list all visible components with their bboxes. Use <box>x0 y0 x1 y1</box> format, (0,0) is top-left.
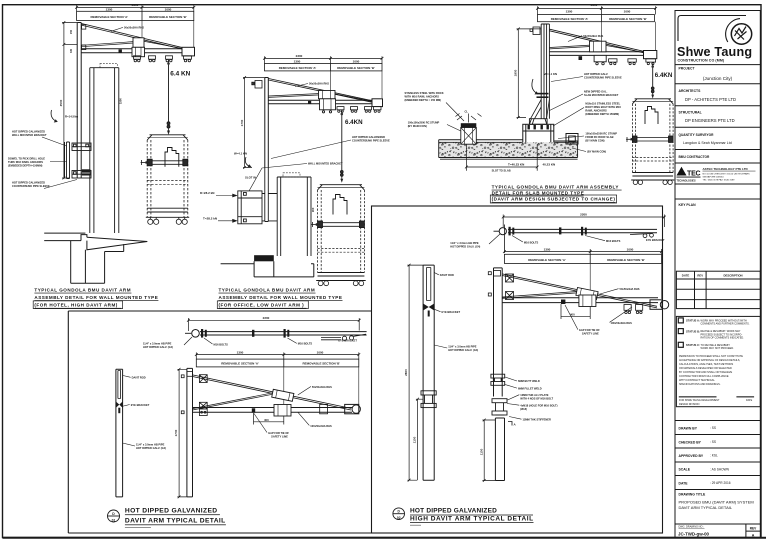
svg-text:11/4" x 3.0mm HB PIPE: 11/4" x 3.0mm HB PIPE <box>143 342 172 346</box>
svg-text:(Ø18): (Ø18) <box>520 407 527 411</box>
dim 400 <box>254 413 284 425</box>
post top bracket <box>530 27 540 35</box>
svg-text:TEL: 6546 3178 FAX: 6546 318: TEL: 6546 3178 FAX: 6546 3189 <box>703 178 736 181</box>
svg-text:HOT DIPPED GALVANIZED: HOT DIPPED GALVANIZED <box>125 508 218 515</box>
disclaimer paragraph <box>679 355 743 386</box>
svg-text:1000: 1000 <box>627 247 634 251</box>
right rc stump on slab <box>566 134 578 145</box>
trolley 1 <box>134 56 141 62</box>
title block row dividers <box>675 65 760 199</box>
left dim line 1800 <box>517 28 542 119</box>
post top bracket <box>82 25 86 30</box>
pipe centre mark <box>252 330 254 337</box>
svg-text:4xM18 (HOLE FOR M16 BOLT): 4xM18 (HOLE FOR M16 BOLT) <box>520 404 557 408</box>
svg-text:M16 BOLTS: M16 BOLTS <box>298 342 313 346</box>
svg-text:REV: REV <box>750 526 757 530</box>
svg-text:GAP FOR TIE OF: GAP FOR TIE OF <box>268 431 289 435</box>
svg-text:REMOVABLE SECTION 'A': REMOVABLE SECTION 'A' <box>279 66 317 70</box>
extension verticals <box>331 71 383 98</box>
davit rod inside <box>118 371 121 399</box>
svg-text:6MM FILLET WELD: 6MM FILLET WELD <box>518 386 542 390</box>
davit rod inside <box>427 268 431 301</box>
bottom frame <box>631 173 674 181</box>
mid hoist trolley under beam <box>594 55 606 61</box>
svg-text:RAWL ANCHORS: RAWL ANCHORS <box>585 109 607 113</box>
suspension pipe <box>200 332 367 335</box>
arm post <box>187 368 193 497</box>
swing arc arrow <box>51 110 56 122</box>
eye bracket bowtie on rod <box>116 402 123 408</box>
logo decorative frame <box>678 16 746 42</box>
arm post brackets <box>488 271 513 300</box>
removable section box <box>504 254 661 263</box>
svg-text:DP - ACHITECTS PTE LTD: DP - ACHITECTS PTE LTD <box>685 97 736 102</box>
wheels <box>318 281 363 286</box>
drawing 3 title <box>492 185 619 202</box>
svg-text:50x50x3HA RHS: 50x50x3HA RHS <box>620 287 640 291</box>
svg-text:ACCEPTANCE OR APPROVAL OF DESI: ACCEPTANCE OR APPROVAL OF DESIGN DETAILS… <box>679 359 740 362</box>
top chord <box>269 79 380 104</box>
svg-text:REMOVABLE SECTION 'A': REMOVABLE SECTION 'A' <box>528 258 566 262</box>
svg-text:HOT DIPPED GALV.: HOT DIPPED GALV. <box>584 72 608 76</box>
svg-text:100x50x3HA RHS: 100x50x3HA RHS <box>310 424 332 428</box>
svg-text:W=4.1 KN: W=4.1 KN <box>234 152 247 156</box>
post top bracket <box>252 81 262 89</box>
lower brace <box>81 41 186 49</box>
svg-text:REMOVABLE SECTION 'B': REMOVABLE SECTION 'B' <box>609 17 647 21</box>
gondola hoist <box>645 107 658 125</box>
svg-text:(FOR OFFICE, LOW DAVIT ARM ): (FOR OFFICE, LOW DAVIT ARM ) <box>219 303 305 308</box>
svg-text:330: 330 <box>70 48 73 53</box>
svg-text:12MM THK ALU PLATE: 12MM THK ALU PLATE <box>520 393 549 397</box>
svg-text:STRUCTURAL: STRUCTURAL <box>679 111 702 115</box>
svg-text:2800: 2800 <box>404 369 408 376</box>
svg-text:CHECKED BY: CHECKED BY <box>679 441 702 445</box>
svg-text:BY CONTRACTOR AND SHALL NOT RE: BY CONTRACTOR AND SHALL NOT RELIEVE <box>679 371 732 374</box>
svg-text:(FOR HOTEL, HIGH DAVIT ARM): (FOR HOTEL, HIGH DAVIT ARM) <box>34 303 117 308</box>
swing arc arrow <box>532 79 537 94</box>
svg-text:1300: 1300 <box>237 350 244 354</box>
wall bracket lower <box>72 171 91 179</box>
cable turnbuckle <box>167 122 170 131</box>
post bottom joint plates <box>491 374 505 385</box>
svg-text:: SS: : SS <box>710 440 716 444</box>
main beam <box>193 408 353 413</box>
Shwe Taung logo circle <box>726 19 752 45</box>
svg-text:11/4" x 3.0mm HB PIPE: 11/4" x 3.0mm HB PIPE <box>448 345 477 349</box>
svg-text:DAVIT ARM TYPICAL DETAIL: DAVIT ARM TYPICAL DETAIL <box>679 505 733 510</box>
pipe bolts left <box>201 329 207 338</box>
svg-text:6.4KN: 6.4KN <box>345 119 363 126</box>
building column <box>90 68 119 233</box>
svg-text:50x50x3HA RHS: 50x50x3HA RHS <box>583 34 603 38</box>
extension verticals <box>142 21 194 49</box>
svg-text:M16 BOLTS: M16 BOLTS <box>524 240 539 244</box>
svg-text:1800: 1800 <box>513 69 517 76</box>
svg-text:100x100x2500 RC STUMP: 100x100x2500 RC STUMP <box>408 121 440 125</box>
gondola cradle (front, dashed) <box>147 135 188 140</box>
svg-text:50x50x3HA RHS: 50x50x3HA RHS <box>312 385 332 389</box>
concrete slab <box>439 140 578 159</box>
lower brace <box>550 45 655 55</box>
label: pipe sleeve <box>12 181 50 189</box>
svg-text:TEC: TEC <box>687 171 701 178</box>
svg-text:DOWEL TO PICK DRILL HOLE: DOWEL TO PICK DRILL HOLE <box>8 157 45 161</box>
svg-text:M16x110 STAINLESS STEEL: M16x110 STAINLESS STEEL <box>585 102 620 106</box>
drawing 2 title <box>219 288 343 308</box>
svg-text:T=40.23 KN: T=40.23 KN <box>508 163 524 167</box>
panel 4 frame <box>68 311 371 533</box>
eye bracket at pipe end <box>321 334 366 340</box>
dim line 2200 <box>187 318 361 331</box>
svg-text:: KSL: : KSL <box>710 454 718 458</box>
mid connection block <box>320 99 336 110</box>
svg-text:2300: 2300 <box>296 54 303 58</box>
wall bracket plate <box>67 142 70 179</box>
black stop on beam <box>579 56 583 60</box>
lower post <box>495 415 504 481</box>
svg-text:100x50x3HA RHS: 100x50x3HA RHS <box>611 321 633 325</box>
svg-text:ASSEMBLY DETAIL FOR WALL MOUNT: ASSEMBLY DETAIL FOR WALL MOUNTED TYPE <box>219 295 343 300</box>
svg-text:REMOVABLE SECTION 'B': REMOVABLE SECTION 'B' <box>337 66 375 70</box>
hoist cable <box>341 111 343 170</box>
hoist cable <box>168 61 170 122</box>
status / approval box <box>676 316 760 406</box>
svg-text:DRAWING TITLE: DRAWING TITLE <box>679 493 706 497</box>
black stop on beam <box>119 49 122 52</box>
svg-text:: SS: : SS <box>710 426 716 430</box>
svg-text:DESCRIPTION: DESCRIPTION <box>723 274 742 278</box>
svg-text:6.4 KN: 6.4 KN <box>170 71 190 78</box>
dim line 2300 <box>263 56 383 63</box>
post centreline through eye <box>503 225 505 254</box>
svg-text:M16 BOLTS: M16 BOLTS <box>606 239 621 243</box>
gap marker <box>252 408 255 412</box>
trolleys <box>337 107 381 113</box>
svg-text:SPECIFICATIONS AND DRAWINGS.: SPECIFICATIONS AND DRAWINGS. <box>679 383 721 386</box>
panel 4 title symbol <box>108 510 120 522</box>
svg-text:GAP FOR TIE OF: GAP FOR TIE OF <box>579 328 600 332</box>
svg-text:ROOT RING BOLT WITH M16: ROOT RING BOLT WITH M16 <box>585 105 621 109</box>
gondola hoist <box>165 148 179 167</box>
svg-text:6.4KN: 6.4KN <box>655 72 673 79</box>
svg-text:1300: 1300 <box>544 247 551 251</box>
svg-text:TECHNOLOGIES: TECHNOLOGIES <box>677 180 697 183</box>
label: anchor note <box>8 157 45 168</box>
svg-text:M16 BOLTS: M16 BOLTS <box>214 342 229 346</box>
svg-text:1000: 1000 <box>353 59 360 63</box>
svg-text:REMOVABLE SECTION 'B': REMOVABLE SECTION 'B' <box>149 15 187 19</box>
beam mid block <box>274 405 291 417</box>
davit post <box>265 78 269 168</box>
svg-text:DESIGN DIVISION: DESIGN DIVISION <box>679 403 700 406</box>
wall bracket upper <box>72 143 91 151</box>
svg-text:HOT DIPPED GALV. (G4): HOT DIPPED GALV. (G4) <box>448 348 478 352</box>
guide arrow <box>312 224 319 226</box>
raised mid mast block <box>319 91 336 99</box>
svg-text:COUNTERSUNK PIPE SLEEVE: COUNTERSUNK PIPE SLEEVE <box>352 139 390 143</box>
top chord (tie) <box>81 24 185 50</box>
svg-text:1100: 1100 <box>413 436 417 443</box>
cable turnbuckle <box>340 170 343 179</box>
suspension pipe <box>508 229 657 232</box>
beam end block <box>372 99 383 107</box>
svg-text:12MM THK STIFFENER: 12MM THK STIFFENER <box>523 418 552 422</box>
pipe eye circle <box>192 330 200 338</box>
revision table <box>676 271 760 308</box>
arm post <box>494 268 503 397</box>
label gap for tie <box>579 328 600 336</box>
mid connection block <box>132 47 145 56</box>
base load dims <box>465 144 539 171</box>
svg-text:CONTRACTOR FROM FULL COMPLIANC: CONTRACTOR FROM FULL COMPLIANCE <box>679 375 729 378</box>
label: anchor bolts <box>585 102 621 117</box>
dim 2800 <box>407 264 423 482</box>
svg-text:JC-TWD-gw-00: JC-TWD-gw-00 <box>678 532 710 537</box>
svg-text:1700: 1700 <box>240 119 244 126</box>
svg-text:DATE: DATE <box>746 399 753 402</box>
small slide block <box>320 404 328 413</box>
svg-text:HOT DIPPED GALV. (G4): HOT DIPPED GALV. (G4) <box>143 345 173 349</box>
gondola platform dashed <box>147 181 188 185</box>
wall section <box>221 261 314 277</box>
gondola hoist <box>333 195 347 215</box>
svg-text:REMOVABLE SECTION 'A': REMOVABLE SECTION 'A' <box>551 17 589 21</box>
svg-text:CALCULATIONS, ANALYSES, TEST M: CALCULATIONS, ANALYSES, TEST METHODS <box>679 363 733 366</box>
svg-text:COUNTERSUNK PIPE SLEEVE: COUNTERSUNK PIPE SLEEVE <box>12 184 50 188</box>
gondola cradle (dashed) <box>632 99 673 104</box>
panel 5 frame <box>372 206 663 533</box>
svg-text:2300: 2300 <box>132 3 139 7</box>
svg-text:3500: 3500 <box>59 99 63 106</box>
left davit post detail <box>116 369 123 497</box>
removable section box <box>538 15 655 22</box>
lower brace <box>502 292 577 299</box>
svg-text:1000: 1000 <box>317 350 324 354</box>
svg-text:ASTEC TECHNOLOGY PTE LTD: ASTEC TECHNOLOGY PTE LTD <box>703 167 749 171</box>
svg-text:(EMBEDED DEPTH = 150 MM): (EMBEDED DEPTH = 150 MM) <box>405 98 442 102</box>
svg-text:1300: 1300 <box>566 10 573 14</box>
beam tip <box>345 404 361 413</box>
pipe labels <box>450 241 480 249</box>
svg-text:D=28.2 kN: D=28.2 kN <box>200 191 214 195</box>
top chord <box>550 29 655 55</box>
top chord <box>193 375 352 410</box>
label: rc stump right <box>585 132 617 143</box>
trolley 4 <box>184 56 192 62</box>
top chord <box>502 274 657 308</box>
ASTEC text block <box>703 167 756 181</box>
main beam <box>550 52 657 56</box>
lower flange pair <box>492 399 507 415</box>
svg-text:SCALE: SCALE <box>679 468 691 472</box>
main beam <box>502 298 658 303</box>
left davit post detail <box>423 265 434 480</box>
bottom frame <box>316 273 366 281</box>
gondola cradle (dashed) <box>318 185 365 190</box>
svg-text:PROPOSED BMU (DAVIT ARM) SYS: PROPOSED BMU (DAVIT ARM) SYSTEM <box>679 500 754 505</box>
svg-text:THRU M16 RAWL ANCHORS: THRU M16 RAWL ANCHORS <box>8 160 43 164</box>
svg-text:2200: 2200 <box>580 213 587 217</box>
svg-text:KEY PLAN: KEY PLAN <box>679 203 697 207</box>
pipe bolts right <box>581 227 587 236</box>
svg-text:40.23 KN: 40.23 KN <box>543 163 556 167</box>
svg-text:(Junction City): (Junction City) <box>703 76 733 81</box>
svg-text:SLOT TO SLAB: SLOT TO SLAB <box>492 168 511 172</box>
svg-text:01: 01 <box>112 518 116 522</box>
svg-text:TYPICAL GONDOLA BMU DAVIT ARM: TYPICAL GONDOLA BMU DAVIT ARM <box>219 288 316 293</box>
svg-text:HIGH DAVIT ARM TYPICAL DETAIL: HIGH DAVIT ARM TYPICAL DETAIL <box>410 516 534 523</box>
svg-text:HOT DIPPED GALVANIZED: HOT DIPPED GALVANIZED <box>410 508 497 515</box>
svg-text:DAVIT ROD: DAVIT ROD <box>132 376 146 380</box>
arm post brackets <box>181 372 207 416</box>
svg-text:EYE BRACKET: EYE BRACKET <box>131 403 150 407</box>
mid connection block (raised) <box>590 41 607 52</box>
svg-text:RATION OF COMMENTS INDICATED.: RATION OF COMMENTS INDICATED. <box>701 337 745 340</box>
svg-text:EYE BRACKET: EYE BRACKET <box>646 238 665 242</box>
gondola mid rail <box>147 159 188 166</box>
svg-text:11/4" x 3.0mm HB PIPE: 11/4" x 3.0mm HB PIPE <box>450 241 479 245</box>
svg-text:W=4.1 KN: W=4.1 KN <box>544 72 557 76</box>
hoist cable <box>652 64 654 87</box>
svg-text:: AS SHOWN: : AS SHOWN <box>710 468 730 472</box>
svg-text:WITH M16 RAWL ANCHORS: WITH M16 RAWL ANCHORS <box>405 95 440 99</box>
svg-text:REMOVABLE SECTION 'A': REMOVABLE SECTION 'A' <box>91 15 129 19</box>
svg-text:SLOT IN: SLOT IN <box>245 176 256 180</box>
panel 5 title symbol <box>393 508 405 520</box>
svg-text:DWG. DRAWING NO :: DWG. DRAWING NO : <box>679 526 705 529</box>
svg-text:(BY MAIN CON): (BY MAIN CON) <box>408 124 427 128</box>
svg-text:SINGAPORE 408564: SINGAPORE 408564 <box>703 175 725 178</box>
status C checkbox <box>678 342 683 347</box>
trolley 3 <box>166 56 173 62</box>
left dim line 1700 <box>243 76 265 169</box>
removable section box <box>196 359 358 367</box>
roof dashed outline <box>283 173 300 177</box>
title block outer box <box>675 11 760 538</box>
removable section box <box>265 64 383 71</box>
gondola bottom frame <box>146 208 189 217</box>
svg-text:50x50x3HA RHS: 50x50x3HA RHS <box>309 82 329 86</box>
svg-text:Langdon & Seah Myanmar Ltd: Langdon & Seah Myanmar Ltd <box>683 141 732 145</box>
wall section outline <box>44 233 147 283</box>
svg-text:FROM RC ROOF SLAB: FROM RC ROOF SLAB <box>585 135 613 139</box>
post collar <box>537 93 549 95</box>
swing arc arrow <box>245 157 250 167</box>
wheels <box>633 180 672 184</box>
svg-text:EYE BRACKET: EYE BRACKET <box>442 310 461 314</box>
post base flange <box>529 119 547 125</box>
pipe bolts right <box>284 329 290 338</box>
svg-text:HOT DIPPED GALV. (G4): HOT DIPPED GALV. (G4) <box>450 244 480 248</box>
svg-text:HOT DIPPED GALVANIZED: HOT DIPPED GALVANIZED <box>12 181 45 185</box>
svg-text:(DAVIT ARM DESIGN SUBJECTED TO: (DAVIT ARM DESIGN SUBJECTED TO CHANGE) <box>492 197 616 202</box>
svg-text:NO 10 UBI CRESCENT #05-60 UBI: NO 10 UBI CRESCENT #05-60 UBI TECHPARK <box>703 173 751 176</box>
svg-text:11/4" x 3.0mm HB PIPE: 11/4" x 3.0mm HB PIPE <box>136 443 165 447</box>
svg-text:STATUS A:: STATUS A: <box>686 319 700 323</box>
svg-text:ASSEMBLY DETAIL FOR WALL MOUNT: ASSEMBLY DETAIL FOR WALL MOUNTED TYPE <box>34 295 158 300</box>
svg-text:T=28.2 kN: T=28.2 kN <box>203 217 217 221</box>
dim 400 <box>561 304 590 319</box>
svg-text:ARCHITECTS: ARCHITECTS <box>679 89 702 93</box>
signature lines <box>679 396 717 397</box>
svg-text:SAFETY LINE: SAFETY LINE <box>582 332 599 336</box>
svg-text:DATE: DATE <box>682 274 690 278</box>
black stop on beam <box>308 101 311 104</box>
removable section box <box>77 11 194 20</box>
post-to-column bracket (dark) <box>82 169 91 175</box>
svg-text:2200: 2200 <box>263 316 270 320</box>
svg-text:SLAB MOUNTED BRACKET: SLAB MOUNTED BRACKET <box>584 93 619 97</box>
svg-text:REMOVABLE SECTION 'B': REMOVABLE SECTION 'B' <box>607 258 645 262</box>
svg-text:50x50x3HA RHS: 50x50x3HA RHS <box>124 26 144 30</box>
davit post <box>77 23 81 179</box>
gondola mid rail <box>318 221 365 228</box>
pipe centre mark <box>559 227 561 234</box>
svg-text:QUANTITY SURVEYOR: QUANTITY SURVEYOR <box>679 133 715 137</box>
base block <box>523 124 554 144</box>
svg-text:WALL MOUNTED BRACKET: WALL MOUNTED BRACKET <box>308 162 343 166</box>
svg-text:COMMENTS AND FURTHER COMMENTS.: COMMENTS AND FURTHER COMMENTS. <box>701 323 750 326</box>
brace bracket <box>82 45 86 50</box>
dim 1100 left <box>416 398 423 480</box>
svg-text:TYPICAL GONDOLA BMU DAVIT ARM: TYPICAL GONDOLA BMU DAVIT ARM <box>34 288 131 293</box>
beam end block <box>644 51 657 59</box>
wall bracket assembly <box>238 168 277 224</box>
svg-text:BMU CONTRACTOR: BMU CONTRACTOR <box>679 155 710 159</box>
svg-text:REMOVABLE SECTION 'B': REMOVABLE SECTION 'B' <box>303 362 341 366</box>
cable turnbuckle <box>651 87 654 95</box>
svg-text:WITH 4 NOS OF M16 BOLT: WITH 4 NOS OF M16 BOLT <box>520 397 553 401</box>
svg-text:1100: 1100 <box>479 448 483 455</box>
svg-text:100x100x2500 RC STUMP: 100x100x2500 RC STUMP <box>585 132 617 136</box>
svg-text:PROJECT: PROJECT <box>679 67 696 71</box>
extension verticals <box>601 22 655 52</box>
left anchor stump <box>461 123 477 144</box>
svg-text:REMOVABLE SECTION 'A': REMOVABLE SECTION 'A' <box>221 362 259 366</box>
pipe labels <box>143 342 173 350</box>
beam tip <box>650 300 669 310</box>
chord splice block <box>272 389 294 401</box>
gondola mid rail <box>632 136 673 142</box>
post base splay <box>531 100 550 119</box>
svg-text:(EMBEDED DEPTH=150MM): (EMBEDED DEPTH=150MM) <box>8 164 43 168</box>
dim line 2300 <box>75 5 195 11</box>
svg-text:HOT DIPPED GALVANIZED: HOT DIPPED GALVANIZED <box>12 130 45 134</box>
svg-text:STAINLESS STEEL WITH ROCK: STAINLESS STEEL WITH ROCK <box>405 91 444 95</box>
drawing 1 title <box>34 288 158 308</box>
dim line 2300 <box>536 6 657 14</box>
svg-text:900: 900 <box>311 207 315 212</box>
svg-text:HOT DIPPED GALV. (G4): HOT DIPPED GALV. (G4) <box>136 446 166 450</box>
svg-text:2300: 2300 <box>591 3 598 7</box>
label: slab bracket <box>584 90 619 98</box>
svg-text:WITH CONTRACT TECHNICAL: WITH CONTRACT TECHNICAL <box>679 379 715 382</box>
svg-text:(EMBEDED DEPTH 150MM): (EMBEDED DEPTH 150MM) <box>585 112 619 116</box>
pipe bolts left <box>509 227 515 236</box>
eye bracket bowtie on rod <box>423 304 434 311</box>
left dim line 3500 <box>62 21 77 179</box>
label gap for tie <box>268 431 289 439</box>
svg-text:WALL MOUNTED BRACKET: WALL MOUNTED BRACKET <box>12 133 47 137</box>
svg-text:1500: 1500 <box>119 98 123 104</box>
svg-text:DP ENGINEERS PTE LTD: DP ENGINEERS PTE LTD <box>685 118 735 123</box>
svg-text:(BY MAIN CON): (BY MAIN CON) <box>587 150 606 154</box>
beam mid block <box>579 295 596 307</box>
beam end block <box>182 47 195 56</box>
ASTEC logo <box>677 167 701 183</box>
section mark A <box>508 422 512 426</box>
